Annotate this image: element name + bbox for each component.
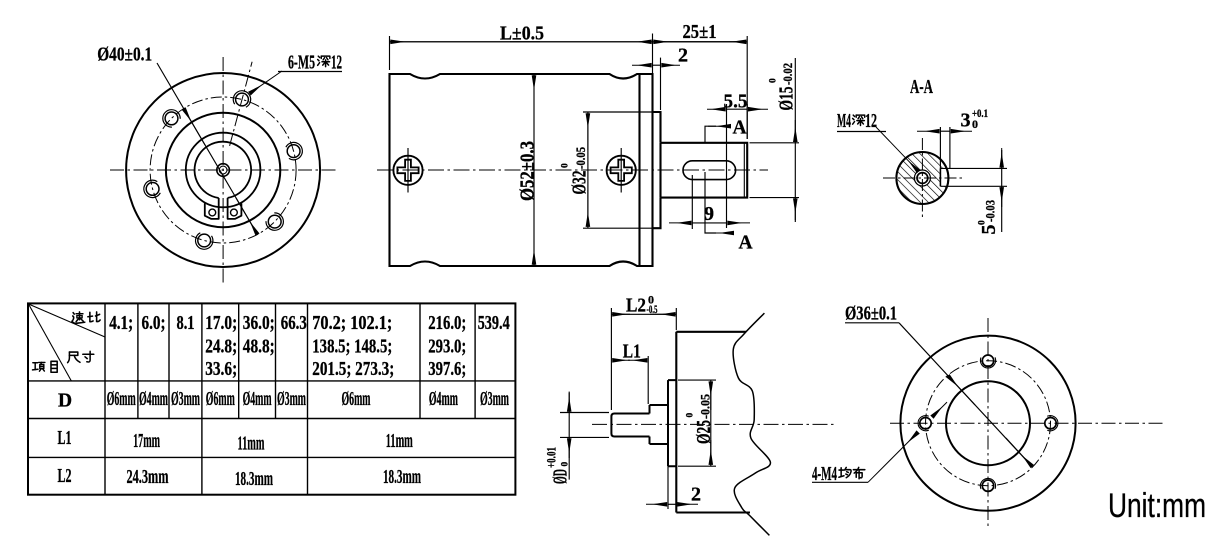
svg-text:4-M4: 4-M4 (812, 464, 837, 485)
dia25 dimension (678, 379, 716, 381)
motor body outline (390, 74, 653, 266)
dia15 extension lines (750, 142, 800, 144)
svg-text:Ø52±0.3: Ø52±0.3 (517, 141, 539, 201)
svg-text:0: 0 (561, 462, 571, 467)
svg-text:Ø40±0.1: Ø40±0.1 (97, 44, 152, 66)
6-M5 leader arrow (250, 71, 282, 93)
vertical centerline (222, 57, 224, 284)
svg-text:25±1: 25±1 (683, 21, 717, 43)
svg-text:138.5; 148.5;: 138.5; 148.5; (312, 337, 392, 358)
section crosshair (883, 177, 965, 179)
svg-text:5: 5 (978, 225, 1000, 235)
svg-text:L1: L1 (623, 341, 641, 363)
svg-text:9: 9 (704, 203, 714, 225)
M5 tapped hole at 165 deg (146, 183, 159, 196)
table vertical line col4 (201, 303, 203, 494)
table outer border (28, 303, 515, 494)
L dimension line (390, 41, 394, 43)
svg-text:0: 0 (972, 117, 978, 131)
front view spigot circle (186, 133, 261, 208)
keyway slot (683, 161, 736, 180)
leader underline M4 (837, 131, 886, 133)
svg-text:12: 12 (331, 52, 342, 74)
svg-text:Ø4mm: Ø4mm (139, 389, 168, 410)
svg-text:18.3mm: 18.3mm (235, 469, 273, 490)
table vertical line x=420.0 (419, 303, 421, 418)
svg-text:Ø25: Ø25 (693, 420, 715, 444)
svg-text:A: A (738, 233, 752, 254)
dia32 extension lines (583, 111, 661, 113)
2 dimension (spigot protrusion) (660, 58, 662, 110)
freehand break line (733, 313, 770, 535)
M5 tapped hole at 105 deg (198, 234, 211, 247)
spigot (653, 112, 661, 228)
M4 hole right (1045, 418, 1056, 429)
L dimension extension lines (389, 36, 391, 70)
svg-text:18.3mm: 18.3mm (383, 467, 421, 488)
svg-text:66.3: 66.3 (281, 313, 307, 334)
svg-text:D: D (58, 391, 72, 412)
svg-text:L1: L1 (58, 428, 72, 449)
svg-text:24.3mm: 24.3mm (127, 467, 169, 488)
svg-text:8.1: 8.1 (177, 313, 195, 334)
5.5 dimension (746, 104, 748, 139)
hatched shaft section (896, 152, 948, 204)
table vertical line x=275.5 (275, 303, 277, 418)
bolt circle (dash-dot) (150, 97, 296, 243)
shaft end chamfer (743, 143, 745, 197)
table horizontal line y=457.4 (28, 456, 515, 458)
M5 tapped hole at 225 deg (165, 112, 178, 125)
svg-text:0: 0 (686, 413, 696, 418)
svg-text:293.0;: 293.0; (428, 337, 466, 358)
shaft boss (650, 405, 669, 444)
5 dimension line (1001, 150, 1003, 232)
lug hole right (231, 209, 238, 216)
svg-text:2: 2 (691, 484, 701, 506)
svg-text:Ø36±0.1: Ø36±0.1 (845, 303, 897, 325)
svg-text:Ø6mm: Ø6mm (342, 389, 371, 410)
rear horizontal centerline (890, 422, 1163, 424)
svg-text:0: 0 (769, 78, 779, 83)
table vertical line col7 (307, 303, 309, 494)
horizontal centerline (110, 169, 336, 171)
M4 tapped hole (917, 173, 928, 184)
header label xiang-mu (32, 362, 44, 371)
rear outer circle (900, 336, 1075, 511)
dia36 dimension diameter line (899, 323, 1033, 467)
centerline (592, 423, 835, 425)
lug hole left (209, 209, 216, 216)
svg-text:-0.03: -0.03 (984, 200, 998, 222)
table vertical line x=475.1 (474, 303, 476, 418)
M4 hole left (920, 418, 931, 429)
svg-text:Ø3mm: Ø3mm (480, 389, 509, 410)
horizontal centerline (377, 169, 768, 171)
section arrow A top (705, 126, 716, 143)
radial dash-dot line to top M5 hole (230, 62, 253, 146)
svg-text:Ø3mm: Ø3mm (277, 389, 306, 410)
svg-text:11mm: 11mm (386, 431, 413, 452)
M4 hole bottom (982, 480, 993, 491)
3 dimension extension lines (939, 127, 941, 168)
svg-text:L2: L2 (626, 295, 646, 317)
keyway notch in section (939, 168, 941, 186)
svg-text:4.1;: 4.1; (109, 313, 133, 334)
svg-text:5.5: 5.5 (724, 91, 748, 113)
svg-text:Ø32: Ø32 (569, 171, 591, 195)
svg-text:+0.01: +0.01 (545, 447, 559, 468)
svg-text:-0.02: -0.02 (781, 63, 795, 85)
L2 dimension (610, 308, 612, 410)
svg-text:Ø4mm: Ø4mm (429, 389, 458, 410)
dia52 dimension line (533, 74, 535, 266)
dia15 dimension line with outside arrows (794, 58, 796, 222)
svg-text:-0.05: -0.05 (699, 394, 713, 419)
svg-text:M4: M4 (837, 110, 851, 132)
svg-text:L2: L2 (58, 466, 72, 487)
2 dimension (spigot thickness) (667, 466, 669, 509)
shaft section circle (896, 152, 948, 204)
svg-text:Unit:mm: Unit:mm (1108, 487, 1206, 525)
spigot flange (668, 380, 676, 466)
svg-text:ØD: ØD (550, 469, 572, 484)
svg-text:6.0;: 6.0; (142, 313, 166, 334)
svg-text:24.8;: 24.8; (205, 337, 237, 358)
M5 tapped hole at -75 deg (236, 93, 249, 106)
svg-text:70.2; 102.1;: 70.2; 102.1; (312, 313, 392, 334)
retaining ring circle with bottom gap (195, 142, 252, 198)
phillips screw left (393, 148, 422, 193)
rear vertical centerline (987, 318, 989, 528)
svg-text:12: 12 (865, 110, 877, 132)
table vertical line x=137.9 (137, 303, 139, 418)
5 dimension extension lines (940, 167, 1007, 169)
svg-text:-0.05: -0.05 (574, 147, 588, 169)
svg-text:L±0.5: L±0.5 (500, 23, 544, 45)
small shaft (611, 414, 649, 437)
svg-text:216.0;: 216.0; (428, 313, 466, 334)
svg-text:11mm: 11mm (238, 434, 265, 455)
dia32 dimension line (587, 112, 589, 228)
svg-text:Ø4mm: Ø4mm (243, 389, 272, 410)
svg-text:201.5; 273.3;: 201.5; 273.3; (312, 359, 394, 380)
svg-text:539.4: 539.4 (478, 313, 510, 334)
svg-text:36.0;: 36.0; (243, 313, 275, 334)
front view body circle (166, 113, 280, 227)
svg-text:2: 2 (678, 45, 688, 67)
25 dimension line (653, 41, 748, 43)
rear plate line (638, 74, 640, 266)
svg-text:Ø3mm: Ø3mm (171, 389, 200, 410)
svg-text:17.0;: 17.0; (205, 313, 237, 334)
9 dimension (691, 175, 693, 229)
svg-text:48.8;: 48.8; (243, 337, 275, 358)
svg-text:33.6;: 33.6; (205, 359, 237, 380)
svg-text:17mm: 17mm (133, 431, 160, 452)
table vertical line x=238.7 (238, 303, 240, 418)
svg-text:Ø15: Ø15 (776, 87, 798, 111)
shaft (661, 143, 748, 198)
svg-text:Ø6mm: Ø6mm (206, 389, 235, 410)
header label su-bi (72, 312, 85, 323)
phillips screw right (607, 148, 636, 193)
center shaft circle (217, 164, 230, 177)
svg-text:A-A: A-A (910, 76, 933, 98)
rear inner circle (946, 381, 1030, 465)
header diagonal lines (29, 304, 106, 337)
leader underline 6-M5 (278, 71, 342, 73)
M5 tapped hole at 45 deg (268, 215, 281, 228)
table vertical line x=169.0 (168, 303, 170, 418)
4-M4 leader (812, 481, 868, 483)
svg-text:3: 3 (961, 110, 971, 132)
table horizontal line y=380.9 (28, 380, 515, 382)
3 dimension line (917, 130, 939, 132)
svg-text:6-M5: 6-M5 (288, 52, 315, 74)
section arrow A bottom (705, 172, 716, 233)
table vertical line col1 (104, 303, 106, 494)
dia36 label underline (845, 322, 899, 324)
rear bolt circle dash-dot (926, 361, 1051, 486)
svg-text:-0.5: -0.5 (647, 302, 658, 316)
svg-text:397.6;: 397.6; (428, 359, 466, 380)
svg-text:A: A (732, 118, 746, 139)
header label chi-cun (68, 352, 80, 363)
M4 hole top (982, 355, 993, 366)
retaining ring lugs (205, 198, 219, 219)
dia 40 dimension line (157, 63, 258, 235)
front view outer circle (126, 73, 320, 267)
table horizontal line y=418.5 (28, 418, 515, 420)
L1 dimension (647, 356, 649, 404)
diaD dimension (560, 412, 609, 414)
svg-text:Ø6mm: Ø6mm (107, 389, 136, 410)
gearbox body with break (676, 332, 750, 513)
M4 leader arrow (876, 127, 918, 171)
svg-text:0: 0 (561, 163, 571, 168)
M5 tapped hole at -15 deg (287, 145, 300, 158)
